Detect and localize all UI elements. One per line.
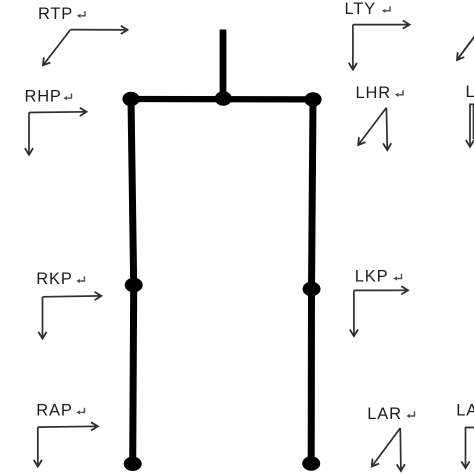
left leg link (viewer right): thigh and shin [311, 99, 313, 463]
left ankle joint [302, 456, 320, 470]
return mark after LKP [393, 274, 401, 281]
return mark after RAP [76, 408, 84, 415]
return mark after RHP [63, 94, 71, 101]
label L (cut off at right edge, top) [466, 83, 474, 101]
svg-text:LH: LH [466, 83, 474, 101]
label LA (cut off at right edge, bottom) [456, 401, 474, 419]
label LTY [345, 0, 376, 18]
arrow RHP (corner: right ray and down ray) [29, 112, 87, 155]
arrow at right edge bottom (corner, cut off) [466, 428, 474, 469]
label RAP [36, 402, 72, 420]
svg-text:LAR: LAR [367, 405, 402, 423]
arrow LAR (lambda: down-left ray and down ray from apex) [372, 428, 401, 471]
svg-text:LAP: LAP [456, 401, 474, 419]
label RHP [25, 87, 62, 105]
svg-text:LTY: LTY [345, 0, 376, 18]
left knee joint [303, 282, 321, 296]
svg-text:RTP: RTP [38, 5, 73, 23]
arrow at right edge top (corner, cut off) [470, 104, 474, 147]
label LHR [356, 84, 391, 102]
right hip joint [122, 92, 139, 106]
svg-text:RHP: RHP [25, 87, 62, 105]
arrow RTP (bent: right ray and down-left ray) [43, 30, 128, 66]
right ankle joint [124, 457, 142, 471]
svg-text:RKP: RKP [36, 270, 72, 288]
return mark after RKP [76, 276, 84, 283]
right leg link (viewer left): thigh and shin [131, 99, 134, 464]
label LAR [367, 405, 402, 423]
torso link [220, 30, 227, 100]
svg-text:LHR: LHR [356, 84, 391, 102]
svg-text:RAP: RAP [36, 402, 72, 420]
label RTP [38, 5, 73, 23]
return mark after LAR [406, 411, 414, 418]
arrow LHR (lambda: down-left ray and down ray from apex) [358, 108, 387, 150]
arrow RKP (corner: right ray and down ray) [43, 296, 102, 339]
return mark after LTY [382, 6, 390, 13]
waist joint [215, 91, 232, 105]
label RKP [36, 270, 72, 288]
arrow LKP (corner: right ray and down ray) [354, 290, 408, 336]
left hip joint [304, 92, 321, 106]
arrow RAP (corner: right ray and down ray) [38, 426, 98, 466]
svg-text:LKP: LKP [355, 268, 389, 286]
arrow at top right edge (cut off, points down-left) [457, 33, 474, 60]
return mark after LHR [395, 90, 403, 97]
arrow LTY (corner: right ray and down ray) [353, 25, 410, 70]
hip link (pelvis bar) [131, 96, 313, 103]
right knee joint [125, 278, 143, 292]
label LKP [355, 268, 389, 286]
return mark after RTP [77, 11, 85, 18]
